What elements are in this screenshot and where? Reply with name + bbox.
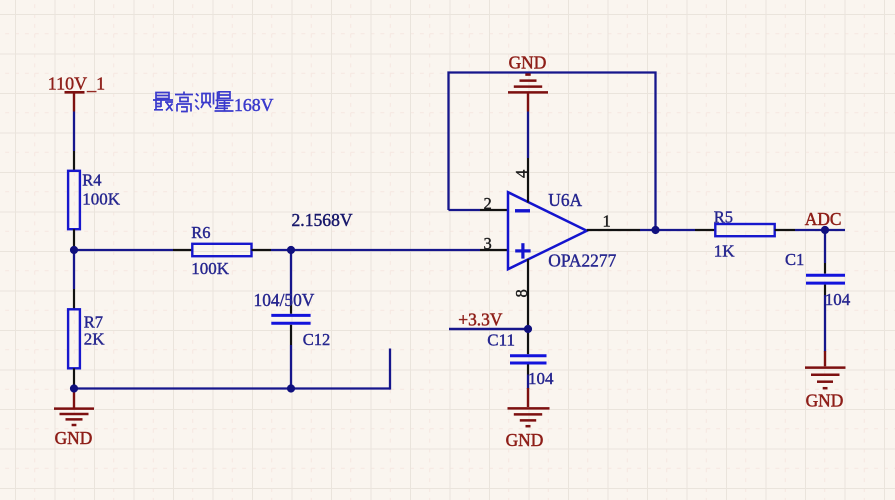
op-amp U6A pin 1: [587, 229, 640, 231]
svg-text:100K: 100K: [82, 189, 121, 208]
svg-text:R7: R7: [84, 312, 103, 331]
junction node C12 bottom: [287, 384, 295, 392]
op-amp U6A labels: [548, 190, 616, 270]
svg-text:+3.3V: +3.3V: [458, 310, 503, 330]
wire stub up: [389, 349, 391, 390]
svg-text:1: 1: [603, 211, 611, 230]
op-amp U6A pin 3: [480, 249, 508, 251]
capacitor C12 plates: [271, 315, 310, 323]
svg-text:R5: R5: [714, 207, 733, 226]
resistor R7 pin 1: [73, 289, 75, 309]
ground GND left: [54, 390, 94, 448]
ground GND middle: [506, 388, 550, 450]
resistor R7 body: [68, 309, 80, 368]
resistor R4 pin 2: [73, 229, 75, 250]
resistor R7 labels: [84, 312, 106, 348]
resistor R6 pin 1: [173, 249, 192, 251]
op-amp U6A minus symbol: [515, 209, 530, 212]
net label 2.1568V: [292, 210, 353, 230]
svg-text:U6A: U6A: [548, 190, 582, 210]
resistor R5 pin 1: [695, 229, 715, 231]
svg-text:C11: C11: [487, 330, 515, 349]
ground GND top (inverted): [508, 52, 548, 111]
junction node R4 R6 R7: [70, 246, 78, 254]
op-amp U6A body: [508, 192, 587, 269]
bottom wire: [74, 387, 390, 389]
resistor R6 pin 2: [252, 249, 272, 251]
pin number 1: [603, 211, 611, 230]
capacitor C1 pin 1: [824, 263, 826, 274]
wire GND top to pin 4: [527, 112, 529, 159]
op-amp U6A pin 8: [527, 259, 529, 329]
wire R4 node to R7: [73, 250, 75, 289]
svg-text:R6: R6: [191, 223, 210, 242]
resistor R5 labels: [714, 207, 736, 260]
wire C11 to ground: [527, 375, 529, 390]
svg-text:GND: GND: [806, 391, 844, 411]
svg-text:1K: 1K: [714, 242, 736, 261]
junction node ground rail left: [70, 384, 78, 392]
ground GND right: [805, 351, 846, 411]
svg-text:GND: GND: [506, 430, 544, 450]
svg-text:104: 104: [825, 290, 851, 309]
capacitor C12 pin 2: [290, 325, 292, 345]
resistor R6 body: [192, 244, 251, 256]
capacitor C1 labels: [785, 250, 851, 309]
power port +3.3V: [449, 310, 528, 330]
resistor R4 pin 1: [73, 151, 75, 171]
op-amp U6A pin 4: [527, 158, 529, 203]
svg-text:104/50V: 104/50V: [254, 290, 315, 310]
svg-text:2.1568V: 2.1568V: [292, 210, 353, 230]
wire 110V_1 to R4: [73, 112, 75, 152]
junction node output feedback: [651, 226, 659, 234]
annotation text 最高测量168V: [153, 92, 234, 112]
resistor R4 labels: [82, 170, 121, 208]
wire ADC node to C1: [824, 230, 826, 263]
wire pin 1 to R5: [640, 229, 695, 231]
capacitor C12 wire top: [290, 250, 292, 304]
op-amp U6A pin 2: [480, 209, 508, 211]
pin number 8: [512, 289, 531, 297]
capacitor C1 pin 2: [824, 285, 826, 295]
capacitor C11 plates: [510, 356, 547, 363]
capacitor C12 pin 1: [290, 304, 292, 314]
pin number 2: [484, 194, 492, 213]
pin number 3: [484, 234, 492, 253]
wire to op-amp pin 2: [449, 209, 481, 211]
capacitor C11 labels: [487, 330, 554, 388]
svg-text:100K: 100K: [191, 259, 230, 278]
resistor R7 pin 2: [73, 368, 75, 388]
svg-text:110V_1: 110V_1: [48, 74, 105, 94]
capacitor C12 wire bottom: [290, 345, 292, 389]
svg-text:104: 104: [528, 369, 554, 388]
feedback wire: [449, 73, 656, 231]
resistor R5 pin 2: [775, 229, 795, 231]
svg-text:168V: 168V: [234, 95, 274, 115]
capacitor C11 pin 1: [527, 329, 529, 354]
pin number 4: [512, 170, 531, 178]
resistor R6 labels: [191, 223, 230, 278]
svg-text:C12: C12: [303, 330, 331, 349]
junction node 2.1568V: [287, 246, 295, 254]
wire C1 to ground: [824, 295, 826, 352]
junction node pin 8 +3.3V: [524, 325, 532, 333]
capacitor C1 plates: [806, 275, 845, 283]
svg-text:GND: GND: [509, 52, 547, 72]
svg-text:ADC: ADC: [805, 209, 842, 229]
svg-text:3: 3: [484, 234, 492, 253]
op-amp U6A plus symbol: [515, 243, 530, 258]
svg-text:C1: C1: [785, 250, 804, 269]
resistor R5 body: [715, 224, 774, 236]
annotation text 168V: [234, 95, 274, 115]
resistor R4 body: [68, 171, 80, 229]
wire node to R6: [74, 249, 173, 251]
svg-text:GND: GND: [55, 428, 93, 448]
svg-text:2K: 2K: [84, 330, 106, 349]
capacitor C12 labels: [254, 290, 331, 349]
net label ADC: [805, 209, 842, 229]
wire R5 to ADC: [795, 229, 845, 231]
wire R6 to op-amp pin 3: [271, 249, 480, 251]
svg-text:R4: R4: [82, 170, 101, 189]
junction node ADC C1: [821, 226, 829, 234]
capacitor C11 pin 2: [527, 364, 529, 374]
power port 110V_1: [48, 74, 105, 112]
svg-text:OPA2277: OPA2277: [548, 250, 616, 270]
svg-text:2: 2: [484, 194, 492, 213]
